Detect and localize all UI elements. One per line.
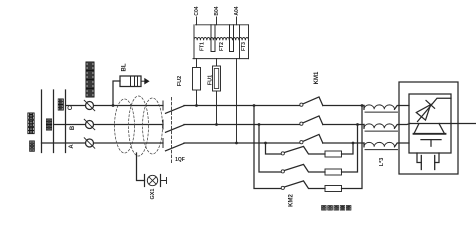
label 绿色 (green) xyxy=(46,119,51,124)
junction xyxy=(112,104,115,107)
wire: resistor to reactor bus xyxy=(342,125,358,173)
junction xyxy=(215,123,218,126)
terminal XB input terminal circle xyxy=(86,121,94,129)
resistor R xyxy=(325,186,342,192)
svg-text:BL: BL xyxy=(122,63,128,71)
label 变频器控制 (bottom-right) xyxy=(322,205,327,210)
junction xyxy=(352,142,355,145)
reactor L winding xyxy=(363,106,365,110)
contactor KM2 pole xyxy=(281,170,284,173)
svg-text:B: B xyxy=(70,125,76,130)
capacitor C (DC bus) xyxy=(417,153,421,163)
IGBT V1 collector rail xyxy=(410,123,451,125)
wire: left supply vertical L2 xyxy=(53,90,55,153)
fuse FU2 xyxy=(193,68,201,91)
wire: CT secondary to lamp GX1 xyxy=(137,153,145,181)
svg-text:FT1: FT1 xyxy=(199,42,205,51)
svg-text:A: A xyxy=(69,144,75,149)
reactor core bar xyxy=(365,149,398,151)
svg-text:1QF: 1QF xyxy=(175,157,185,163)
FT coil winding xyxy=(194,37,249,40)
junction xyxy=(356,123,359,126)
terminal XC input terminal circle xyxy=(86,102,94,110)
svg-text:B04: B04 xyxy=(214,6,220,15)
wire: tap stub xyxy=(216,17,218,25)
IGBT V1 legs and emitter bar xyxy=(414,124,445,134)
fuse FU1 xyxy=(213,66,221,91)
wire: phase A tap to KM2 row1 xyxy=(266,143,282,154)
svg-text:KM1: KM1 xyxy=(314,71,320,84)
reactor L winding xyxy=(363,125,365,129)
wire: phase B tap to KM2 row2 xyxy=(259,125,281,173)
svg-text:FU1: FU1 xyxy=(208,75,214,85)
wire: resistor to reactor bus xyxy=(342,106,363,189)
label 主回路 (main circuit) xyxy=(28,113,34,119)
wire: tap stub xyxy=(196,17,198,25)
contactor KM1 pole xyxy=(300,141,303,144)
IGBT V1 gate xyxy=(421,139,441,141)
breaker QF pole contact xyxy=(162,101,164,110)
wire: left supply vertical L3 xyxy=(41,90,43,153)
junction xyxy=(235,142,238,145)
breaker QF pole contact xyxy=(162,120,164,129)
CT dashed ellipse xyxy=(115,99,135,153)
reactor core bar xyxy=(365,111,398,113)
wire: phase C tap to KM2 row3 xyxy=(254,106,281,189)
resistor R xyxy=(325,151,342,157)
wire: tap C04 down through FU2 to phase C xyxy=(196,59,198,106)
junction xyxy=(195,104,198,107)
svg-text:FT2: FT2 xyxy=(219,42,225,51)
CT dashed ellipse xyxy=(143,98,163,154)
FT3 cell box edges xyxy=(240,25,249,59)
terminal XA input terminal circle xyxy=(86,139,94,147)
FT1 secondary loop xyxy=(211,25,215,52)
label 输入端子 (input terminals) xyxy=(86,62,94,70)
junction xyxy=(264,142,267,145)
label 黄色 (yellow) xyxy=(30,141,35,146)
label 红色 (red) xyxy=(58,99,63,104)
arrester BL body xyxy=(120,76,141,87)
reactor L winding xyxy=(363,143,365,147)
FT block top bus xyxy=(196,24,249,26)
wire: input stubs into inner box xyxy=(399,106,410,144)
junction xyxy=(361,104,364,107)
wire: resistor to reactor bus xyxy=(342,143,354,154)
wire: phase B main line xyxy=(54,124,365,126)
wire: left supply vertical L1 xyxy=(65,90,67,153)
CT dashed ellipse xyxy=(129,96,149,156)
svg-text:L*3: L*3 xyxy=(379,158,385,167)
FT2 secondary loop xyxy=(230,25,234,52)
FT block left edge xyxy=(193,25,195,59)
svg-text:C04: C04 xyxy=(194,6,200,15)
svg-text:GX1: GX1 xyxy=(150,188,156,199)
arrester BL arrow xyxy=(141,80,145,82)
contactor KM2 pole xyxy=(281,152,284,155)
wire: tap A04 down to phase A xyxy=(236,59,238,143)
contactor KM2 pole xyxy=(281,186,284,189)
contactor KM1 pole xyxy=(300,103,303,106)
svg-text:C: C xyxy=(68,105,74,110)
lamp GX1 xyxy=(147,175,157,185)
contactor KM1 pole xyxy=(300,122,303,125)
junction xyxy=(253,104,256,107)
reactor core bar xyxy=(365,130,398,132)
resistor R xyxy=(325,169,342,175)
inverter outer box xyxy=(399,82,458,174)
diode D1 (diagonal) xyxy=(418,98,452,121)
svg-text:A04: A04 xyxy=(234,6,240,15)
wire: output to right edge xyxy=(451,123,476,125)
svg-text:FU2: FU2 xyxy=(177,76,183,86)
wire: tap stub xyxy=(236,17,238,25)
inverter inner box xyxy=(409,94,451,153)
junction xyxy=(258,123,261,126)
wire: tap B04 down through FU1 to phase B xyxy=(216,59,218,125)
wire: phase A main line xyxy=(42,142,365,144)
svg-text:FT3: FT3 xyxy=(241,42,247,51)
wire: BL branch from phase C xyxy=(113,81,120,106)
breaker QF linkage (dashed) xyxy=(171,98,173,165)
breaker QF pole contact xyxy=(162,139,164,148)
svg-text:KM2: KM2 xyxy=(289,194,295,207)
wire: phase C main line xyxy=(66,105,365,107)
FT block bottom bus xyxy=(193,58,249,60)
